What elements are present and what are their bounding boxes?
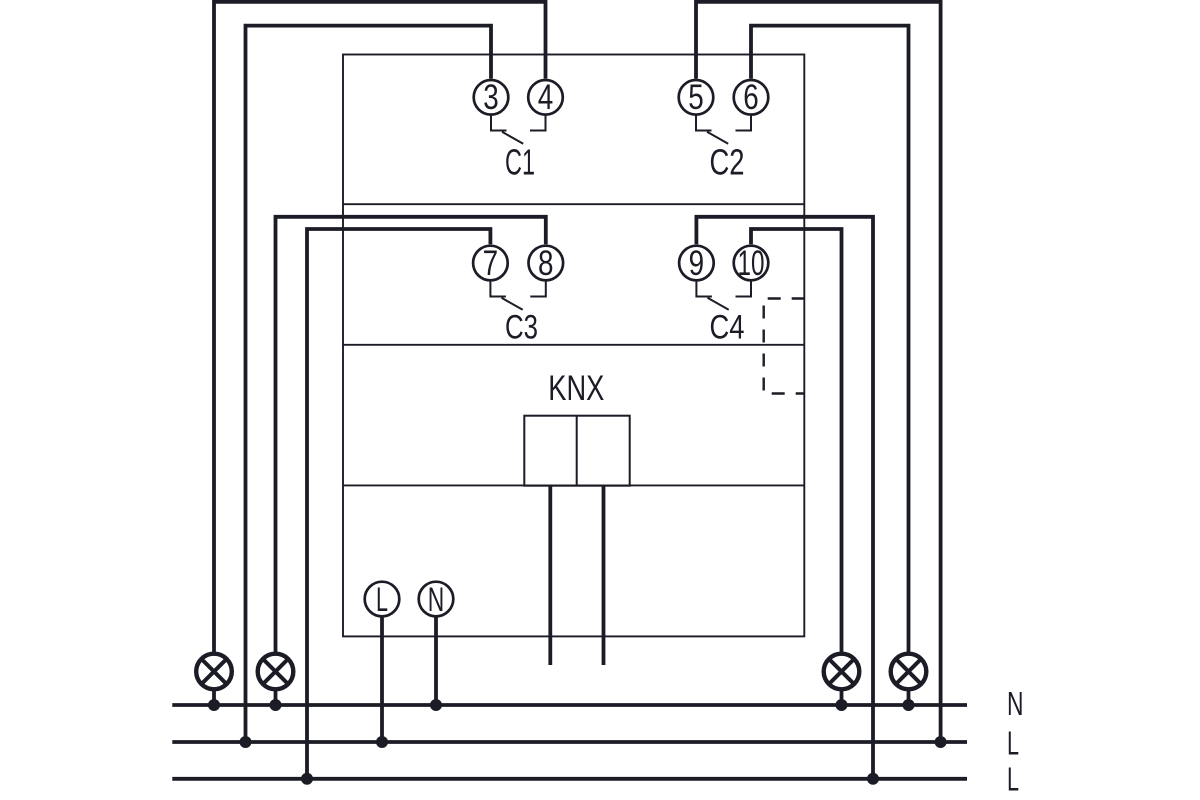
svg-text:KNX: KNX <box>548 369 604 408</box>
bus line N <box>172 703 967 707</box>
junction dot lamp E1 / N <box>208 699 220 711</box>
junction dot terminal N / N <box>430 699 442 711</box>
terminal N <box>419 582 454 617</box>
wire KNX bus stub right <box>602 486 606 665</box>
section divider 3 <box>343 484 804 486</box>
lamp E2 <box>258 654 294 690</box>
lamp E1 <box>196 654 232 690</box>
junction dot lamp E4 / N <box>903 699 915 711</box>
svg-text:7: 7 <box>483 243 499 283</box>
wire KNX bus stub left <box>548 486 552 665</box>
svg-text:C3: C3 <box>505 309 538 347</box>
section divider 2 <box>343 344 804 346</box>
switch contact C4 <box>696 281 751 310</box>
terminal 3 <box>474 80 509 115</box>
terminal 4 <box>528 80 563 115</box>
terminal 9 <box>679 246 714 281</box>
junction dot lamp E3 / N <box>836 699 848 711</box>
wire terminal N to N bus <box>434 618 438 706</box>
svg-text:C1: C1 <box>505 142 535 183</box>
terminal 7 <box>473 246 508 281</box>
terminal 10 <box>734 246 769 281</box>
wire terminal 5 to L1 bus <box>696 2 941 742</box>
svg-text:C4: C4 <box>710 309 745 347</box>
switch contact C1 <box>491 115 546 144</box>
terminal 8 <box>529 246 564 281</box>
wire lamp E2 to N bus <box>274 691 278 705</box>
junction dot wire3 / L1 <box>240 736 252 748</box>
svg-text:N: N <box>428 581 445 619</box>
svg-text:6: 6 <box>743 77 759 117</box>
terminal 5 <box>679 80 714 115</box>
switch contact C2 <box>696 115 751 144</box>
svg-text:N: N <box>1007 685 1024 722</box>
svg-text:10: 10 <box>738 243 765 283</box>
svg-text:L: L <box>1007 761 1019 798</box>
wire L1 bus to terminal 3 <box>246 26 492 742</box>
svg-text:C2: C2 <box>710 142 745 183</box>
svg-text:9: 9 <box>689 243 705 283</box>
wire terminal 6 to lamp E4 <box>751 26 909 653</box>
wire terminal 10 to lamp E3 <box>751 229 842 652</box>
terminal 6 <box>734 80 769 115</box>
lamp E4 <box>891 654 927 690</box>
svg-text:L: L <box>376 581 388 619</box>
junction dot terminal L / L1 <box>376 736 388 748</box>
bus line L (bottom) <box>172 777 967 781</box>
bus line L (middle) <box>172 740 967 744</box>
lamp E3 <box>824 654 860 690</box>
wire lamp E1 to terminal 4 <box>214 2 546 652</box>
wire lamp E3 to N bus <box>840 691 844 705</box>
device outline box U1 <box>343 55 804 637</box>
junction dot wire5 / L1 <box>935 736 947 748</box>
terminal L <box>365 582 400 617</box>
svg-text:8: 8 <box>538 243 554 283</box>
dashed optional link from contact C4 to box edge <box>764 299 805 394</box>
wire lamp E2 to terminal 8 <box>276 217 546 652</box>
section divider 1 <box>343 203 804 205</box>
junction dot wire9 / L2 <box>867 773 879 785</box>
wire lamp E1 to N bus <box>212 691 216 705</box>
wire terminal L to L1 bus <box>380 618 384 743</box>
svg-text:5: 5 <box>688 77 704 117</box>
wire lamp E4 to N bus <box>907 691 911 705</box>
svg-text:L: L <box>1007 725 1019 762</box>
svg-text:4: 4 <box>538 77 554 117</box>
wire terminal 9 to L2 bus <box>696 217 873 779</box>
junction dot wire7 / L2 <box>301 773 313 785</box>
wire L2 bus to terminal 7 <box>307 229 490 779</box>
junction dot lamp E2 / N <box>270 699 282 711</box>
KNX terminal block <box>524 416 629 486</box>
svg-text:3: 3 <box>483 77 499 117</box>
switch contact C3 <box>490 281 545 310</box>
